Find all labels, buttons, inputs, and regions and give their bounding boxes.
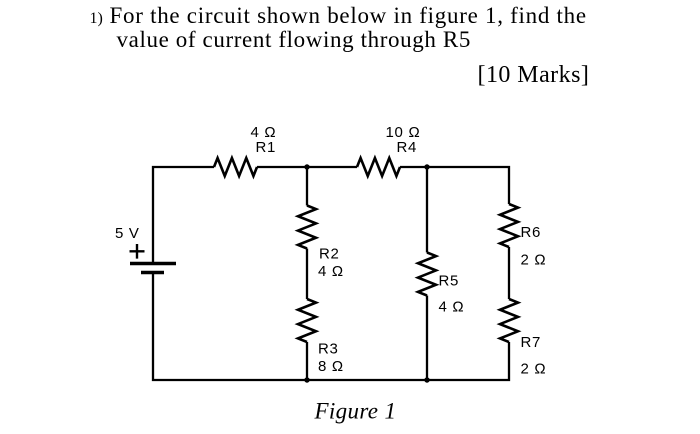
wire node A to R4 (307, 166, 357, 168)
wire node A down to R2 (306, 167, 308, 206)
svg-text:2 Ω: 2 Ω (521, 361, 547, 378)
question text line 1 (110, 3, 587, 28)
battery V1 plate long (positive) (130, 262, 176, 265)
wire top-left (battery + to R1) (153, 167, 214, 264)
wire R6 to R7 (508, 247, 510, 299)
wire R3 to bottom node A2 (306, 342, 308, 380)
svg-text:R3: R3 (318, 341, 339, 358)
svg-text:4 Ω: 4 Ω (439, 299, 465, 316)
resistor R5 (418, 253, 436, 296)
svg-text:4 Ω: 4 Ω (318, 263, 344, 280)
resistor R3 (298, 299, 316, 342)
node A junction dot (304, 164, 309, 169)
node B2 junction dot (bottom) (424, 377, 429, 382)
node B junction dot (424, 164, 429, 169)
svg-text:1): 1) (90, 10, 103, 27)
wire node B down to R5 (426, 167, 428, 253)
wire node B to top-right corner and down to R6 (427, 167, 509, 204)
svg-text:R2: R2 (319, 246, 340, 263)
svg-text:Figure 1: Figure 1 (314, 399, 397, 424)
battery V1 plate short (negative) (141, 271, 164, 274)
resistor R2 (298, 206, 316, 249)
resistor R1 (214, 158, 257, 176)
node A2 junction dot (bottom) (304, 377, 309, 382)
svg-text:value of current flowing throu: value of current flowing through R5 (117, 27, 471, 52)
wire R5 to bottom node B2 (426, 296, 428, 381)
svg-text:5 V: 5 V (115, 225, 140, 242)
svg-text:R5: R5 (439, 273, 460, 290)
svg-text:[10 Marks]: [10 Marks] (478, 62, 590, 88)
svg-text:R7: R7 (521, 334, 542, 351)
resistor R4 (357, 158, 400, 176)
svg-text:8 Ω: 8 Ω (318, 358, 344, 375)
figure caption (314, 399, 397, 424)
battery plus sign (130, 244, 145, 259)
wire R1 to node A (257, 166, 307, 168)
svg-text:R4: R4 (397, 139, 418, 156)
resistor R7 (500, 299, 518, 342)
question text line 2 (117, 27, 471, 52)
svg-text:R1: R1 (256, 139, 277, 156)
svg-text:2 Ω: 2 Ω (521, 252, 547, 269)
marks label (478, 62, 590, 88)
wire bottom (node B2 to battery minus) (153, 274, 427, 380)
wire R7 to bottom-right corner (427, 342, 509, 380)
svg-text:R6: R6 (521, 224, 542, 241)
resistor R6 (500, 204, 518, 247)
svg-text:For the circuit shown below in: For the circuit shown below in figure 1,… (110, 3, 587, 28)
wire R4 to node B (400, 166, 427, 168)
question text line 1 number (90, 10, 103, 27)
wire R2 to R3 (306, 249, 308, 300)
